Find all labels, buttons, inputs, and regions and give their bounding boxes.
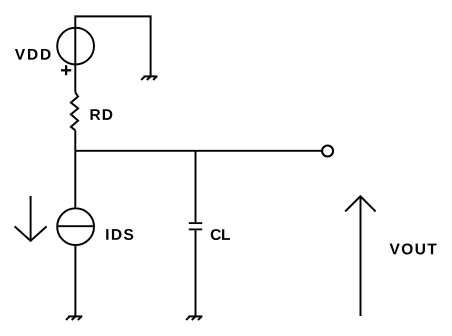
output terminal open circle — [322, 146, 333, 157]
wire CL branch upper — [195, 151, 197, 222]
current source IDS circle — [57, 208, 94, 245]
plus sign of VDD — [61, 65, 71, 75]
capacitor CL plates — [189, 223, 202, 229]
label VDD — [15, 49, 51, 60]
wire CL lower to ground — [195, 230, 197, 316]
ground G3 under CL — [186, 316, 202, 320]
ground G1 top right — [141, 76, 157, 80]
IDS chord line — [57, 225, 94, 227]
resistor RD zigzag — [71, 92, 78, 130]
voltage source VDD circle — [57, 28, 94, 65]
label IDS — [106, 229, 133, 240]
label VOUT — [390, 243, 437, 254]
wire IDS bottom to ground — [74, 245, 76, 316]
ground G2 under IDS — [66, 316, 82, 320]
label RD — [91, 109, 113, 120]
arrow IDS current direction down — [15, 196, 47, 241]
label CL — [211, 229, 230, 240]
wire RD bottom to IDS top — [74, 130, 76, 207]
arrow VOUT up — [345, 196, 375, 316]
wire VDD top loop to ground — [75, 16, 150, 92]
wire middle horizontal node to output — [75, 150, 322, 152]
